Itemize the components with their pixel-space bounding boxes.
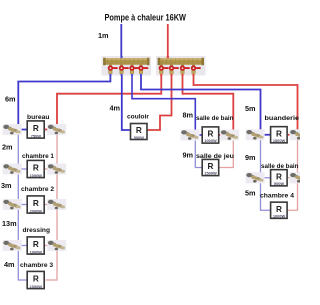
svg-text:4m: 4m: [4, 260, 15, 269]
manifold right (red supplies) (brass 4-port collector photo): [156, 56, 206, 76]
thermostatic valve photo (chambre 2 right): [47, 199, 66, 210]
svg-text:R: R: [33, 199, 39, 208]
svg-text:2000W: 2000W: [30, 208, 43, 213]
radiator couloir 500W: [131, 124, 148, 140]
thermostatic valve photo (salle de bain left): [181, 130, 200, 141]
svg-text:chambre 1: chambre 1: [22, 153, 54, 160]
wire blue return from pump to left manifold: [120, 24, 122, 56]
wire red stub salle de bain 2: [288, 177, 298, 179]
wire blue stub buanderie: [261, 134, 271, 136]
svg-text:1000W: 1000W: [30, 173, 43, 178]
wire blue L3: left manifold port3 to salle de bain column: [132, 73, 195, 135]
svg-text:500W: 500W: [134, 135, 144, 140]
svg-text:salle de bain: salle de bain: [196, 115, 234, 122]
wire blue L4: left manifold port4 to buanderie column: [141, 73, 261, 135]
svg-text:500W: 500W: [274, 181, 284, 186]
wire blue riser salle de jeu (thin): [195, 135, 202, 168]
svg-text:dressing: dressing: [23, 227, 51, 234]
svg-text:1500W: 1500W: [204, 171, 217, 176]
thermostatic valve photo (chambre 1 left): [3, 164, 22, 175]
svg-text:2m: 2m: [2, 142, 13, 151]
svg-text:750W: 750W: [31, 133, 41, 138]
radiator buanderie 1500W: [271, 127, 288, 143]
wire blue stub salle de bain: [195, 134, 202, 136]
radiator dressing 1000W: [27, 237, 44, 255]
radiator salle de bain 2 500W: [271, 170, 288, 186]
wire red left column riser (thin) bureau to chambre 3: [46, 130, 58, 281]
svg-text:6m: 6m: [5, 95, 16, 104]
radiator chambre 3 1000W: [27, 271, 44, 289]
wire blue L1: left manifold port1 to left column: [18, 73, 110, 130]
svg-text:buanderie: buanderie: [265, 115, 300, 122]
thermostatic valve photo (buanderie left): [246, 129, 265, 140]
thermostatic valve photo (bureau right): [47, 124, 66, 135]
svg-text:salle de bain: salle de bain: [261, 163, 299, 170]
radiator chambre 2 2000W: [27, 196, 44, 214]
thermostatic valve photo (salle de bain right): [220, 130, 239, 141]
svg-text:8m: 8m: [183, 110, 194, 119]
thermostatic valve photo (chambre 2 left): [3, 199, 22, 210]
svg-text:R: R: [33, 275, 39, 284]
wire red R2: right manifold port2 to couloir radiator: [147, 73, 171, 130]
svg-text:9m: 9m: [245, 153, 256, 162]
wire red R3: right manifold port3 to salle de bain column: [183, 73, 234, 135]
svg-text:1m: 1m: [98, 31, 109, 40]
radiator chambre 1 1000W: [27, 160, 44, 178]
svg-text:1000W: 1000W: [30, 249, 43, 254]
wire red R1: right manifold port1 to left column feed: [57, 73, 161, 130]
thermostatic valve photo (salle de bain 2 right): [290, 172, 309, 183]
wire red stub buanderie: [288, 134, 298, 136]
radiator salle de jeu 1500W: [202, 159, 219, 175]
svg-text:couloir: couloir: [127, 113, 149, 120]
thermostatic valve photo (buanderie right): [290, 129, 309, 140]
wire red supply from pump to right manifold: [167, 24, 169, 56]
thermostatic valve photo (bureau left): [3, 124, 22, 135]
wire red R4: right manifold port4 to buanderie column: [194, 73, 298, 135]
manifold left (blue returns) (brass 4-port collector photo): [102, 56, 152, 76]
wire blue stub salle de bain 2: [261, 177, 271, 179]
svg-text:chambre 2: chambre 2: [21, 186, 54, 193]
svg-text:1000W: 1000W: [30, 284, 43, 289]
svg-text:R: R: [33, 124, 39, 133]
wire blue stub chambre 2: [18, 204, 27, 206]
wire blue stub chambre 1: [18, 168, 27, 170]
thermostatic valve photo (dressing right): [47, 240, 66, 251]
wire blue riser buanderie column (thin): [261, 135, 271, 211]
svg-text:Pompe à chaleur 16KW: Pompe à chaleur 16KW: [105, 13, 187, 23]
wire red stub bureau: [45, 129, 58, 131]
wire blue stub dressing: [18, 245, 27, 247]
wire blue L2: left manifold port2 to couloir radiator: [122, 73, 131, 130]
wire red stub chambre 1: [45, 168, 58, 170]
svg-text:4m: 4m: [110, 103, 121, 112]
svg-text:chambre 3: chambre 3: [20, 262, 53, 269]
svg-text:9m: 9m: [183, 150, 194, 159]
wire blue left column riser (thin): [18, 130, 27, 281]
svg-text:bureau: bureau: [27, 114, 50, 121]
wire red riser buanderie column (thin): [288, 135, 298, 211]
thermostatic valve photo (chambre 1 right): [47, 164, 66, 175]
wire red stub salle de bain: [219, 134, 234, 136]
wire blue stub bureau: [18, 129, 27, 131]
wire red stub chambre 2: [45, 204, 58, 206]
svg-text:R: R: [33, 240, 39, 249]
radiator salle de bain 1000W: [202, 127, 219, 143]
svg-text:chambre 4: chambre 4: [260, 192, 294, 199]
wire red riser salle de jeu (thin): [219, 135, 234, 168]
svg-text:1500W: 1500W: [273, 138, 286, 143]
svg-text:R: R: [33, 164, 39, 173]
thermostatic valve photo (salle de bain 2 left): [246, 172, 265, 183]
svg-text:salle de jeu: salle de jeu: [196, 153, 234, 160]
svg-text:5m: 5m: [245, 104, 256, 113]
svg-text:R: R: [136, 126, 142, 135]
svg-text:13m: 13m: [2, 219, 17, 228]
thermostatic valve photo (dressing left): [3, 240, 22, 251]
radiator chambre 4 1000W: [271, 202, 288, 218]
svg-text:3m: 3m: [1, 181, 12, 190]
svg-text:5m: 5m: [245, 188, 256, 197]
svg-text:1000W: 1000W: [204, 138, 217, 143]
svg-text:1000W: 1000W: [273, 213, 286, 218]
radiator bureau 750W: [27, 121, 44, 138]
wire red stub dressing: [45, 245, 58, 247]
